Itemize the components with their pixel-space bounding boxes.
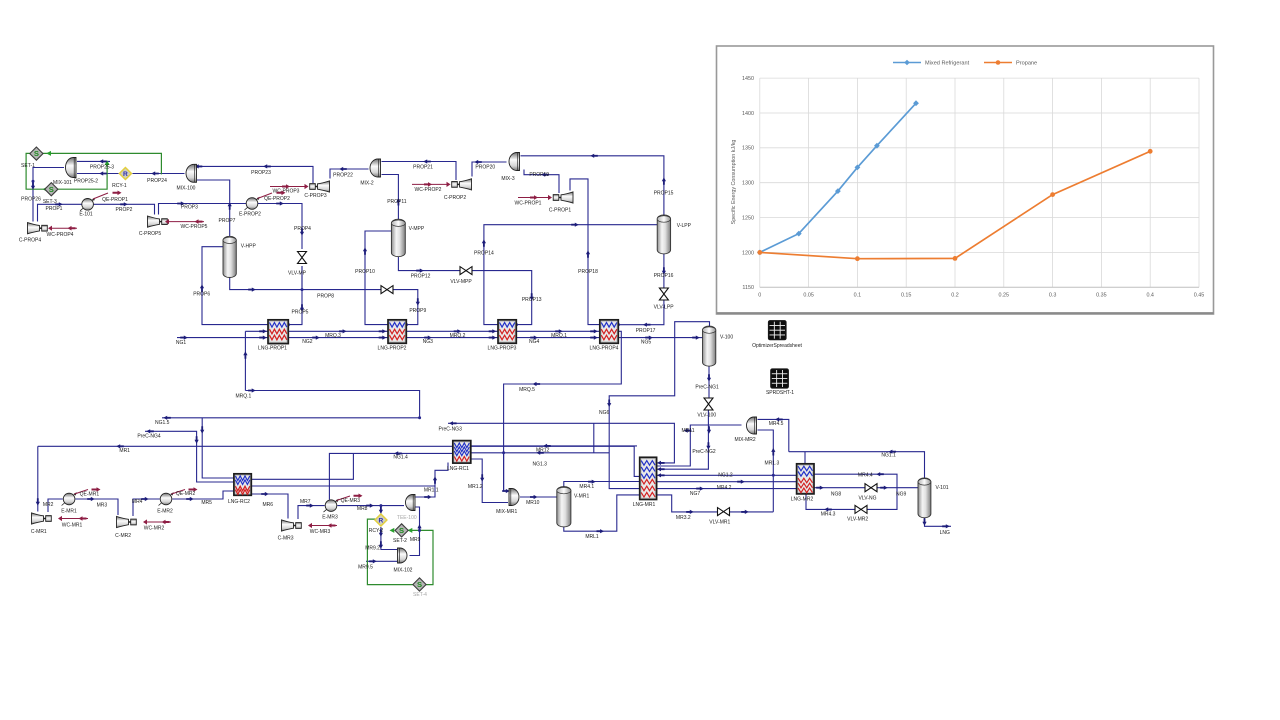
- wire green SET-1 loop: [26, 153, 161, 189]
- svg-text:C-PROP1: C-PROP1: [549, 207, 571, 213]
- svg-text:MR5: MR5: [201, 500, 212, 506]
- wire PROP25-2 RCY-1 out to MIX-101: [77, 173, 119, 175]
- exchanger LNG-PROP2: [388, 320, 406, 344]
- svg-text:SET-4: SET-4: [413, 592, 427, 598]
- energy WC-MR1: [60, 518, 88, 520]
- svg-text:VLV-MR2: VLV-MR2: [847, 517, 868, 523]
- svg-text:PROP18: PROP18: [578, 269, 598, 275]
- wire NG1.3 line: [471, 452, 609, 454]
- exchanger LNG-RC1: [453, 441, 471, 464]
- svg-text:PROP25-3: PROP25-3: [90, 164, 114, 170]
- energy WC-MR2: [145, 521, 171, 523]
- svg-text:PROP22: PROP22: [333, 172, 353, 178]
- svg-text:PROP19: PROP19: [529, 172, 549, 178]
- wire MR11 LNG-MR1 to MIX-MR2: [657, 425, 742, 466]
- svg-text:QE-MR3: QE-MR3: [341, 498, 361, 504]
- valve VLV-MP: [298, 252, 307, 258]
- svg-text:PreC-NG3: PreC-NG3: [439, 427, 463, 433]
- chart series Propane (orange): [760, 151, 1150, 258]
- wire PROP25-3 stub into MIX-101: [77, 160, 110, 162]
- wire NG9 to V-101: [877, 487, 918, 489]
- wire PROP11 V-MPP vapor to MIX-2: [382, 175, 399, 220]
- svg-text:SPRDSHT-1: SPRDSHT-1: [766, 390, 794, 396]
- svg-text:QE-PROP1: QE-PROP1: [102, 197, 128, 203]
- wire PROP16 V-LPP liquid to VLV-LPP: [663, 254, 665, 289]
- set SET-3: [45, 183, 58, 196]
- svg-text:MR4.5: MR4.5: [769, 421, 784, 427]
- wire MR1 long suction line: [38, 446, 640, 476]
- svg-text:V-LPP: V-LPP: [677, 223, 692, 229]
- wire NG from LNG-RC2 to NG1.4 line: [251, 453, 353, 479]
- svg-text:WC-MR1: WC-MR1: [62, 523, 83, 529]
- stream arrows: [180, 336, 188, 340]
- wire MR4.1 V-MR1 vapor to LNG-MR1: [564, 482, 640, 488]
- wire NG1.5 line: [162, 417, 420, 419]
- recycle RCY-2: [375, 514, 387, 526]
- energy QE-MR3: [337, 496, 351, 501]
- svg-text:PROP26: PROP26: [21, 196, 41, 202]
- exchanger LNG-PROP1: [268, 320, 288, 344]
- cooler E-MR1: [62, 493, 77, 506]
- svg-text:MR12: MR12: [536, 448, 550, 454]
- cooler E-101: [80, 198, 95, 211]
- svg-text:MR4.4: MR4.4: [858, 473, 873, 479]
- svg-text:LNG-MR2: LNG-MR2: [791, 497, 814, 503]
- svg-text:RCY-2: RCY-2: [369, 528, 384, 534]
- svg-text:NG1.5: NG1.5: [155, 420, 170, 426]
- svg-text:NG8: NG8: [831, 492, 842, 498]
- svg-text:MR7: MR7: [300, 499, 311, 505]
- svg-text:WC-MR3: WC-MR3: [310, 529, 331, 535]
- exchanger LNG-MR2: [797, 464, 814, 494]
- svg-text:1450: 1450: [742, 76, 754, 82]
- wire V-HPP liquid / PROP8 line: [230, 277, 381, 290]
- wire PROP23 C-PROP3 discharge to MIX-100: [198, 166, 314, 183]
- svg-text:NG4: NG4: [529, 339, 540, 345]
- energy QE-MR2: [172, 490, 186, 495]
- svg-text:C-PROP4: C-PROP4: [19, 237, 41, 243]
- valve VLV-MR1: [718, 508, 724, 516]
- set SET-4: [413, 578, 426, 591]
- chart gridlines: [808, 78, 810, 287]
- wire PROP3 C-PROP5 discharge to E-PROP2: [159, 204, 247, 215]
- svg-text:MR2: MR2: [43, 502, 54, 508]
- svg-text:PROP10: PROP10: [355, 269, 375, 275]
- svg-text:RCY-1: RCY-1: [112, 183, 127, 189]
- svg-text:MRL1: MRL1: [585, 534, 599, 540]
- svg-text:MR4.2: MR4.2: [717, 485, 732, 491]
- wire RCY-2 out to MIX-102: [381, 527, 397, 550]
- wire MR5 E-MR2 to LNG-RC2: [172, 491, 234, 499]
- recycle RCY-1: [119, 168, 131, 180]
- exchanger LNG-PROP3: [498, 320, 516, 344]
- compressor C-PROP1: [561, 192, 573, 203]
- svg-text:PROP6: PROP6: [193, 292, 210, 298]
- svg-text:PROP25-2: PROP25-2: [74, 178, 98, 184]
- energy QE-MR1: [75, 490, 89, 495]
- svg-text:MRQ.5: MRQ.5: [519, 387, 535, 393]
- svg-text:MR1.1: MR1.1: [424, 488, 439, 494]
- wire MR4.5 LNG-MR2 to MIX-MR2: [758, 419, 789, 451]
- svg-text:MR3: MR3: [97, 503, 108, 509]
- svg-text:PROP23: PROP23: [251, 170, 271, 176]
- svg-text:V-MR1: V-MR1: [574, 494, 590, 500]
- mixer MIX-100: [186, 164, 196, 182]
- wire PROP1 C-PROP4 discharge to E-101: [38, 204, 82, 221]
- chart series Mixed Refrigerant (blue): [760, 103, 916, 252]
- wire PROP5 from VLV-MP: [287, 266, 302, 325]
- svg-text:C-MR3: C-MR3: [278, 536, 294, 542]
- wire PROP7 V-HPP vapor to MIX-100: [197, 180, 230, 237]
- chart legend: [893, 62, 921, 64]
- svg-text:MR3.2: MR3.2: [676, 515, 691, 521]
- svg-text:0.45: 0.45: [1194, 293, 1205, 299]
- svg-text:1250: 1250: [742, 216, 754, 222]
- svg-text:S: S: [34, 149, 39, 158]
- svg-text:MIX-100: MIX-100: [177, 186, 196, 192]
- wire PROP24 MIX-100 out to RCY-1: [133, 173, 185, 175]
- svg-text:WC-PROP5: WC-PROP5: [181, 224, 208, 230]
- svg-text:MR1: MR1: [119, 448, 130, 454]
- svg-text:PreC-NG1: PreC-NG1: [695, 385, 719, 391]
- compressor C-MR3: [282, 520, 294, 531]
- wire PreC-NG4 line: [145, 431, 235, 482]
- svg-text:WC-PROP1: WC-PROP1: [515, 201, 542, 207]
- svg-text:R: R: [379, 517, 384, 524]
- exchanger LNG-RC2: [234, 474, 251, 496]
- svg-text:MR8: MR8: [357, 506, 368, 512]
- svg-text:NG5: NG5: [641, 339, 652, 345]
- svg-text:NG1.3: NG1.3: [532, 462, 547, 468]
- svg-text:VLV-NG: VLV-NG: [859, 496, 877, 502]
- valve VLV-MPP: [460, 267, 466, 275]
- svg-text:NG6: NG6: [599, 410, 610, 416]
- wire NG feed line NG1-NG5: [177, 337, 700, 339]
- wire PreC-NG2 VLV-100 to LNG-MR1: [657, 411, 709, 470]
- svg-text:MIX-MR1: MIX-MR1: [496, 509, 517, 515]
- wire MR9 MIX-102 out to TEE-100: [410, 507, 420, 556]
- svg-text:VLV-MR1: VLV-MR1: [709, 520, 730, 526]
- svg-text:LNG-MR1: LNG-MR1: [633, 502, 656, 508]
- wire PROP20 MIX-3 out to C-PROP2: [472, 162, 507, 177]
- svg-text:WC-PROP2: WC-PROP2: [415, 187, 442, 193]
- wire MR4.3 VLV-MR2 to LNG-MR2: [806, 494, 855, 510]
- svg-text:PROP21: PROP21: [413, 164, 433, 170]
- svg-text:LNG-PROP4: LNG-PROP4: [590, 346, 619, 352]
- svg-text:PreC-NG4: PreC-NG4: [137, 434, 161, 440]
- wire MR6 LNG-RC2 to C-MR3: [251, 494, 288, 519]
- svg-text:TEE-100: TEE-100: [397, 515, 417, 521]
- svg-text:V-MPP: V-MPP: [409, 226, 425, 232]
- svg-text:0.15: 0.15: [901, 293, 912, 299]
- svg-text:NG1.1: NG1.1: [881, 453, 896, 459]
- svg-text:PROP24: PROP24: [147, 178, 167, 184]
- separator V-MPP: [391, 222, 405, 254]
- svg-text:LNG-PROP2: LNG-PROP2: [378, 346, 407, 352]
- mixer MIX-MR1: [509, 489, 519, 506]
- junction dots: [32, 180, 35, 183]
- compressor C-PROP4: [28, 223, 40, 234]
- svg-text:1300: 1300: [742, 181, 754, 187]
- svg-text:S: S: [399, 526, 404, 535]
- wire PreC-NG3 line: [448, 423, 674, 463]
- wire MR2 C-MR1 to E-MR1: [48, 499, 63, 512]
- wire MR1.1 TEE-100 to LNG-RC1: [416, 463, 449, 498]
- mixer MIX-2: [370, 159, 380, 177]
- svg-text:C-PROP5: C-PROP5: [139, 231, 161, 237]
- svg-text:VLV-MPP: VLV-MPP: [450, 279, 472, 285]
- svg-text:0.05: 0.05: [803, 293, 814, 299]
- svg-text:LNG-RC1: LNG-RC1: [447, 466, 469, 472]
- wire PROP26 MIX-101 out to C-PROP4: [33, 168, 64, 222]
- svg-text:LNG-RC2: LNG-RC2: [228, 499, 250, 505]
- svg-text:Mixed Refrigerant: Mixed Refrigerant: [925, 61, 970, 67]
- svg-text:NG9: NG9: [896, 492, 907, 498]
- exchanger LNG-PROP4: [600, 320, 619, 344]
- svg-text:WC-MR2: WC-MR2: [144, 526, 165, 532]
- svg-text:PROP9: PROP9: [409, 308, 426, 314]
- mixer MIX-3: [509, 153, 519, 171]
- svg-text:MR4: MR4: [132, 499, 143, 505]
- svg-text:VLV-100: VLV-100: [697, 413, 716, 419]
- svg-text:V-101: V-101: [935, 485, 948, 491]
- svg-text:MRQ.1: MRQ.1: [235, 393, 251, 399]
- mixer MIX-102: [398, 548, 408, 563]
- wire PROP2 E-101 to C-PROP5: [94, 204, 155, 214]
- energy QE-PROP2: [258, 193, 273, 199]
- svg-text:0.25: 0.25: [999, 293, 1010, 299]
- valve VLV-LPP: [659, 288, 668, 294]
- energy WC-PROP4: [50, 227, 77, 229]
- svg-text:Specific Energy Consumption kJ: Specific Energy Consumption kJ/kg: [731, 140, 737, 225]
- svg-text:PreC-NG2: PreC-NG2: [692, 449, 716, 455]
- cooler E-MR2: [159, 493, 174, 506]
- svg-text:PROP7: PROP7: [219, 218, 236, 224]
- svg-text:MR4.3: MR4.3: [821, 512, 836, 518]
- compressor C-PROP5: [148, 216, 160, 227]
- svg-text:S: S: [49, 185, 54, 194]
- wire MR1.2 LNG-RC1 to MIX-MR1: [471, 459, 508, 503]
- valve VLV-MR2: [855, 505, 861, 513]
- wire MRQ.1 riser: [244, 331, 246, 390]
- svg-text:1400: 1400: [742, 111, 754, 117]
- wire C-MR1 suction drop: [37, 446, 39, 511]
- wire NG from LNG-RC2 to MR1.1 riser: [251, 485, 435, 487]
- chart panel: [717, 46, 1214, 314]
- svg-text:0: 0: [758, 293, 761, 299]
- compressor C-MR2: [117, 516, 129, 527]
- wire MR7 C-MR3 to E-MR3: [298, 506, 325, 519]
- spreadsheet SPRDSHT-1 icon: [771, 369, 789, 388]
- svg-text:MRQ.2: MRQ.2: [450, 333, 466, 339]
- svg-text:PROP3: PROP3: [181, 205, 198, 211]
- wire NG8 to VLV-NG: [814, 487, 865, 489]
- spreadsheet OptimizerSpreadsheet icon: [769, 321, 787, 340]
- svg-text:WC-PROP4: WC-PROP4: [47, 232, 74, 238]
- svg-text:0.35: 0.35: [1096, 293, 1107, 299]
- svg-text:PROP5: PROP5: [292, 309, 309, 315]
- svg-text:C-PROP3: C-PROP3: [304, 193, 326, 199]
- svg-text:NG1: NG1: [176, 340, 187, 346]
- svg-text:1150: 1150: [742, 285, 754, 291]
- svg-text:PROP16: PROP16: [654, 273, 674, 279]
- svg-text:Propane: Propane: [1016, 61, 1037, 67]
- svg-text:MIX-101: MIX-101: [53, 180, 72, 186]
- wire NG6 from V-100 top: [609, 322, 709, 489]
- wire NG1.2 line: [657, 474, 797, 476]
- svg-text:0.1: 0.1: [854, 293, 862, 299]
- svg-text:SET-1: SET-1: [21, 163, 35, 169]
- wire MR12 LNG-MR1 to LNG-RC1: [471, 445, 637, 447]
- separator V-MR1: [557, 490, 571, 524]
- wire NG1.4 line to E-MR3: [329, 453, 452, 499]
- valve VLV-NG: [865, 484, 871, 492]
- svg-text:MIX-3: MIX-3: [501, 176, 515, 182]
- svg-text:E-MR2: E-MR2: [157, 509, 173, 515]
- svg-text:PROP8: PROP8: [317, 294, 334, 300]
- energy QE-PROP1: [93, 193, 108, 199]
- svg-text:PROP1: PROP1: [46, 206, 63, 212]
- svg-text:LNG: LNG: [940, 530, 950, 536]
- svg-text:PROP4: PROP4: [294, 226, 311, 232]
- svg-text:MR10: MR10: [526, 500, 540, 506]
- svg-text:S: S: [417, 580, 422, 589]
- wire MR4.4 LNG-MR2 to VLV-MR2: [814, 474, 897, 509]
- svg-text:PROP20: PROP20: [475, 164, 495, 170]
- svg-text:OptimizerSpreadsheet: OptimizerSpreadsheet: [752, 343, 802, 349]
- wire MR1.3 VLV-MR1 to MIX-MR2: [758, 430, 774, 512]
- svg-text:MR1.3: MR1.3: [765, 461, 780, 467]
- energy WC-PROP3: [270, 186, 307, 188]
- wire PROP17 into LNG-PROP4: [617, 300, 664, 325]
- wire LNG product: [925, 518, 952, 527]
- wire PROP9 into LNG-PROP2: [393, 290, 418, 325]
- wire MR3 E-MR1 to C-MR2: [75, 499, 118, 515]
- tee TEE-100: [406, 495, 416, 511]
- svg-text:NG2: NG2: [302, 339, 313, 345]
- exchanger LNG-MR1: [640, 457, 657, 499]
- wire NG7 line: [657, 488, 797, 490]
- svg-text:C-MR1: C-MR1: [31, 529, 47, 535]
- svg-text:MRQ.3: MRQ.3: [325, 333, 341, 339]
- wire MR4 C-MR2 to E-MR2: [133, 499, 160, 516]
- svg-text:1350: 1350: [742, 146, 754, 152]
- svg-text:0.4: 0.4: [1146, 293, 1154, 299]
- svg-text:LNG-PROP1: LNG-PROP1: [258, 346, 287, 352]
- wire MR8 E-MR3 to TEE-100: [337, 505, 404, 507]
- svg-text:MIX-102: MIX-102: [394, 568, 413, 574]
- svg-text:V-100: V-100: [720, 334, 733, 340]
- svg-text:MR1.2: MR1.2: [468, 484, 483, 490]
- svg-text:NG1.2: NG1.2: [718, 473, 733, 479]
- svg-text:MIX-2: MIX-2: [360, 180, 374, 186]
- svg-text:PROP12: PROP12: [411, 274, 431, 280]
- wire NG5 into V-100: [700, 337, 703, 339]
- svg-text:PROP2: PROP2: [116, 207, 133, 213]
- svg-text:VLV-MP: VLV-MP: [288, 270, 307, 276]
- mixer MIX-101: [66, 158, 76, 178]
- separator V-101: [918, 481, 931, 515]
- svg-text:NG3: NG3: [423, 339, 434, 345]
- svg-text:VLV-LPP: VLV-LPP: [654, 305, 675, 311]
- svg-text:MR4.1: MR4.1: [579, 484, 594, 490]
- svg-text:E-PROP2: E-PROP2: [239, 212, 261, 218]
- wire PROP21 C-PROP2 discharge to MIX-2: [382, 162, 457, 181]
- wire NG1.1 V-101 to LNG-MR2: [789, 452, 925, 478]
- svg-text:MR9.2: MR9.2: [365, 546, 380, 552]
- compressor C-MR1: [32, 513, 44, 524]
- separator V-HPP: [223, 239, 236, 274]
- cooler E-MR3: [324, 500, 339, 512]
- wire PreC-NG1 V-100 bottom to VLV-100: [708, 366, 710, 398]
- wire PROP18 to C-PROP1: [570, 179, 601, 325]
- wire MR3.2 LNG-MR1 to VLV-MR1: [657, 495, 718, 512]
- wire PROP4 E-PROP2 to VLV-MP: [258, 204, 302, 250]
- cooler E-PROP2: [245, 198, 260, 211]
- svg-text:PROP17: PROP17: [636, 328, 656, 334]
- energy WC-PROP5: [167, 221, 204, 223]
- wire V-MPP liquid to VLV-MPP: [398, 257, 460, 271]
- svg-text:C-PROP2: C-PROP2: [444, 195, 466, 201]
- svg-text:PROP15: PROP15: [654, 190, 674, 196]
- svg-text:MIX-MR2: MIX-MR2: [735, 437, 756, 443]
- svg-text:C-MR2: C-MR2: [115, 533, 131, 539]
- svg-text:MR9: MR9: [410, 537, 421, 543]
- wire MRL1 V-MR1 liquid to LNG-MR1: [564, 495, 640, 531]
- svg-text:NG7: NG7: [690, 491, 701, 497]
- wire PROP19 C-PROP1 discharge to MIX-3: [524, 170, 559, 194]
- set SET-2: [395, 524, 408, 537]
- svg-text:SET-3: SET-3: [43, 199, 57, 205]
- svg-text:V-HPP: V-HPP: [241, 243, 257, 249]
- svg-text:MRQ.1: MRQ.1: [551, 333, 567, 339]
- compressor C-PROP2: [460, 179, 472, 190]
- energy WC-MR3: [310, 525, 337, 527]
- energy WC-PROP1: [518, 197, 550, 199]
- wire MR9.5 stub into MIX-102: [366, 560, 397, 562]
- svg-text:PROP14: PROP14: [474, 251, 494, 257]
- wire PROP15 V-LPP vapor to MIX-3: [521, 156, 664, 215]
- wire PROP13 into LNG-PROP3: [472, 271, 532, 325]
- svg-text:E-MR3: E-MR3: [322, 515, 338, 521]
- svg-text:MR9.5: MR9.5: [358, 565, 373, 571]
- energy WC-PROP2: [412, 183, 449, 185]
- svg-text:R: R: [123, 171, 128, 178]
- svg-text:LNG-PROP3: LNG-PROP3: [488, 346, 517, 352]
- set SET-1: [30, 147, 43, 160]
- wire MR4.2 line: [657, 481, 797, 483]
- compressor C-PROP3: [318, 181, 330, 192]
- svg-text:E-MR1: E-MR1: [61, 509, 77, 515]
- separator V-100: [703, 329, 716, 363]
- valve VLV-100: [704, 398, 713, 404]
- wire green SET-2 / SET-4 loop: [367, 519, 433, 585]
- wire into MIX-MR1 top from MRQ riser: [503, 453, 505, 491]
- wire PROP22 MIX-2 out to C-PROP3: [330, 169, 369, 179]
- svg-text:MR11: MR11: [682, 428, 695, 434]
- svg-text:QE-MR1: QE-MR1: [80, 491, 100, 497]
- mixer MIX-MR2: [747, 417, 757, 434]
- svg-text:SET-2: SET-2: [393, 538, 407, 544]
- svg-text:PROP11: PROP11: [387, 199, 407, 205]
- svg-text:QE-PROP2: QE-PROP2: [264, 196, 290, 202]
- svg-text:NG1.4: NG1.4: [393, 455, 408, 461]
- wire PROP10 vapor to V-MPP: [365, 231, 392, 325]
- svg-text:MR6: MR6: [263, 502, 274, 508]
- separator V-LPP: [657, 218, 670, 251]
- valve VLV-HPP: [381, 286, 387, 294]
- wire MR10 MIX-MR1 to V-MR1: [520, 496, 557, 498]
